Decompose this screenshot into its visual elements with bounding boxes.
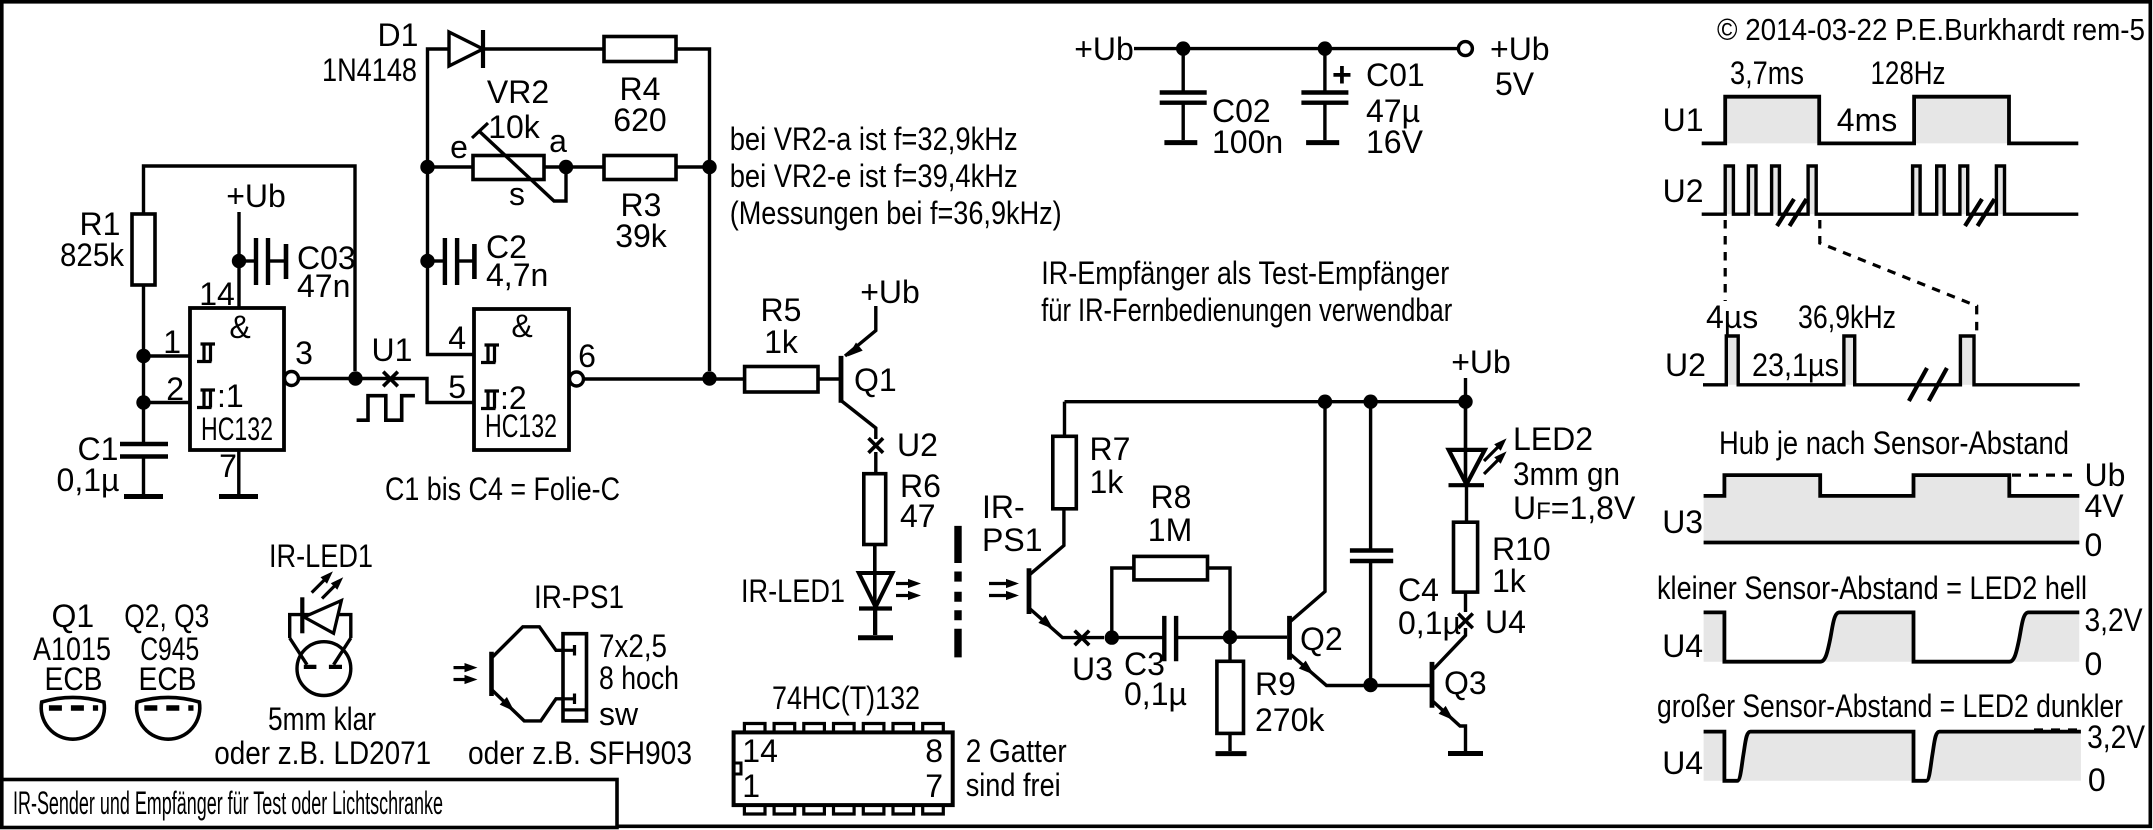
package TO92 Q1 (41, 698, 104, 740)
svg-text:1M: 1M (1148, 512, 1192, 548)
svg-text:D1: D1 (378, 17, 419, 53)
note 8 hoch (599, 660, 679, 696)
note 7x2 5 (599, 628, 667, 664)
timing U3 fill (1704, 475, 2080, 542)
svg-text:47n: 47n (297, 268, 350, 304)
nand gate U1a HC132:1 (190, 308, 284, 450)
note receiver line2 (1041, 292, 1452, 328)
svg-text:U1: U1 (1663, 102, 1704, 138)
led IR-LED1 (741, 545, 921, 636)
svg-text:5: 5 (448, 369, 466, 405)
svg-text:s: s (509, 176, 525, 212)
ground C1 (124, 458, 163, 497)
timing U2us break marks (1909, 368, 1947, 401)
svg-text:36,9kHz: 36,9kHz (1798, 299, 1896, 335)
svg-text:(Messungen bei f=36,9kHz): (Messungen bei f=36,9kHz) (730, 195, 1062, 231)
timing U1 labels (1663, 55, 1946, 138)
transistor Q1 (841, 274, 920, 439)
timing U4a fill (1704, 612, 2080, 661)
svg-text:U1: U1 (372, 332, 413, 368)
diode D1 (322, 17, 483, 88)
node C01 (1318, 41, 1332, 55)
svg-text:3: 3 (295, 335, 313, 371)
power +Ub LED2 (1451, 344, 1511, 402)
svg-text:für IR-Fernbedienungen verwend: für IR-Fernbedienungen verwendbar (1041, 292, 1452, 328)
svg-text:1k: 1k (764, 324, 799, 360)
power +Ub left (1074, 31, 1458, 67)
svg-text:16V: 16V (1366, 124, 1424, 160)
svg-text:IR-: IR- (982, 489, 1025, 525)
node R3 right (702, 160, 716, 174)
svg-text:7: 7 (219, 448, 237, 484)
svg-text:U2: U2 (1663, 173, 1704, 209)
svg-text:23,1µs: 23,1µs (1752, 347, 1839, 383)
svg-text:1N4148: 1N4148 (322, 52, 417, 88)
package IR-PS1 (454, 627, 587, 721)
svg-text:7: 7 (925, 768, 943, 804)
svg-text:10k: 10k (488, 109, 541, 145)
wire R8 left (1112, 568, 1134, 638)
note receiver line1 (1041, 255, 1449, 291)
resistor R9 (1217, 637, 1325, 738)
resistor R5 (745, 292, 818, 392)
wire feedback top (144, 166, 356, 371)
nand gate U1b HC132:2 (474, 308, 569, 450)
node C02 (1176, 41, 1190, 55)
svg-text:sind frei: sind frei (966, 767, 1061, 803)
transistor Q2 (1290, 402, 1431, 686)
svg-text:Q3: Q3 (1444, 665, 1487, 701)
svg-text:U4: U4 (1662, 745, 1703, 781)
svg-text:großer Sensor-Abstand = LED2 d: großer Sensor-Abstand = LED2 dunkler (1657, 688, 2123, 724)
svg-text:Q2: Q2 (1300, 621, 1343, 657)
wire gate1 out (299, 379, 475, 403)
node e (420, 129, 468, 174)
note SFH903 (468, 735, 692, 771)
label s (509, 176, 525, 212)
svg-text:UF=1,8V: UF=1,8V (1513, 490, 1636, 526)
package IR-LED1 (290, 571, 351, 695)
svg-text:7x2,5: 7x2,5 (599, 628, 667, 664)
note LD2071 (214, 735, 431, 771)
svg-text:LED2: LED2 (1513, 421, 1593, 457)
wire top loop (428, 49, 710, 167)
svg-text:2 Gatter: 2 Gatter (966, 733, 1067, 769)
wire R5 to Q1 (818, 377, 839, 380)
node R5 left (702, 371, 716, 385)
led LED2 (1449, 402, 1636, 526)
cross U4 (1458, 614, 1473, 629)
svg-text:a: a (549, 123, 567, 159)
svg-text:4ms: 4ms (1837, 102, 1897, 138)
timing U4b fill (1704, 732, 2081, 781)
note freq line1 (730, 121, 1018, 157)
timing U3 title (1719, 425, 2069, 461)
svg-text:© 2014-03-22 P.E.Burkhardt rem: © 2014-03-22 P.E.Burkhardt rem-5 (1717, 12, 2145, 47)
pin 4 label (448, 320, 466, 356)
light barrier (954, 526, 961, 658)
svg-text:128Hz: 128Hz (1871, 55, 1946, 91)
resistor R1 (60, 206, 155, 285)
resistor R10 (1454, 522, 1551, 599)
svg-text:8 hoch: 8 hoch (599, 660, 679, 696)
copyright note (1717, 12, 2145, 47)
svg-text:Q1: Q1 (51, 598, 94, 634)
node C3 right (1223, 630, 1237, 644)
timing U4a labels (1662, 602, 2143, 682)
label IR-PS1 package (534, 579, 624, 615)
svg-text:1: 1 (742, 768, 760, 804)
resistor R6 (864, 468, 941, 545)
timing U3 zero line (1704, 541, 2080, 545)
label U2 (897, 427, 938, 463)
wire R10 to U4 (1464, 592, 1467, 612)
svg-text:bei VR2-e ist f=39,4kHz: bei VR2-e ist f=39,4kHz (730, 158, 1018, 194)
svg-text:Hub je nach Sensor-Abstand: Hub je nach Sensor-Abstand (1719, 425, 2069, 461)
svg-text:kleiner Sensor-Abstand = LED2: kleiner Sensor-Abstand = LED2 hell (1657, 570, 2087, 606)
note freq line3 (730, 195, 1062, 231)
timing dashed link left (1724, 220, 1727, 301)
svg-text:0,1µ: 0,1µ (57, 462, 120, 498)
svg-text:2: 2 (166, 371, 184, 407)
svg-text::1: :1 (217, 378, 244, 414)
timing U4b dashed top (2034, 728, 2078, 731)
capacitor C02 (1160, 49, 1283, 160)
timing U1 wave (1702, 97, 2079, 144)
svg-text:100n: 100n (1212, 124, 1283, 160)
svg-text:C4: C4 (1398, 572, 1439, 608)
node pin2 (136, 395, 190, 409)
pin 5 label (448, 369, 466, 405)
svg-text:oder z.B. SFH903: oder z.B. SFH903 (468, 735, 692, 771)
power +Ub gate1 (226, 178, 286, 308)
timing U3 labels (1662, 457, 2125, 563)
capacitor C4 (1350, 402, 1461, 684)
svg-text:3,7ms: 3,7ms (1730, 55, 1804, 91)
svg-text:&: & (229, 309, 250, 345)
timing U3 dashed Ub (2012, 474, 2077, 477)
svg-text:47: 47 (900, 498, 936, 534)
timing U4a title (1657, 570, 2087, 606)
svg-text:0,1µ: 0,1µ (1124, 676, 1187, 712)
node U3 (1105, 630, 1119, 644)
label IR-PS1 circuit (982, 489, 1042, 558)
svg-text:620: 620 (613, 102, 666, 138)
pin 1 label (163, 324, 181, 360)
capacitor C1 (57, 431, 168, 498)
svg-text:3mm gn: 3mm gn (1513, 456, 1620, 492)
svg-text:270k: 270k (1255, 702, 1325, 738)
pulse glyph (357, 396, 415, 421)
svg-text:e: e (450, 129, 468, 165)
terminal +Ub 5V (1458, 31, 1549, 102)
ground R9 (1216, 733, 1247, 753)
svg-text:VR2: VR2 (487, 74, 549, 110)
label U1 (372, 332, 413, 368)
resistor R7 (1053, 431, 1131, 509)
svg-text:R5: R5 (761, 292, 802, 328)
cross U2 (869, 438, 884, 453)
wire R3 row (428, 167, 710, 371)
svg-text:HC132: HC132 (485, 408, 557, 444)
light arrows PS1 (989, 579, 1019, 600)
package TO92 Q2 Q3 (137, 698, 200, 740)
timing U4b wave (1704, 732, 2081, 781)
ic package 74HC132 (734, 724, 953, 815)
svg-text:1: 1 (163, 324, 181, 360)
svg-text:6: 6 (578, 338, 596, 374)
svg-text:R8: R8 (1151, 479, 1192, 515)
svg-text:ECB: ECB (139, 661, 197, 697)
pin 3 bubble (285, 335, 313, 386)
svg-text:HC132: HC132 (201, 411, 273, 447)
pin 14 label (199, 276, 235, 312)
svg-text:U3: U3 (1072, 651, 1113, 687)
svg-text:C1 bis C4 = Folie-C: C1 bis C4 = Folie-C (385, 471, 620, 507)
svg-text:R10: R10 (1492, 531, 1551, 567)
svg-text:14: 14 (742, 733, 778, 769)
svg-text:8: 8 (925, 733, 943, 769)
wire R1 to inputs (142, 285, 145, 443)
svg-text:3,2V: 3,2V (2085, 602, 2144, 638)
capacitor C03 (232, 238, 356, 304)
node rail C4 (1363, 395, 1377, 409)
svg-text:U4: U4 (1662, 628, 1703, 664)
svg-text:4: 4 (448, 320, 466, 356)
node pin1 (136, 349, 190, 363)
svg-text:1k: 1k (1492, 563, 1527, 599)
svg-text:+Ub: +Ub (226, 178, 286, 214)
wire gate2 out (584, 377, 745, 380)
svg-text:39k: 39k (615, 218, 668, 254)
timing U1 fill (1725, 97, 2009, 144)
svg-text:5V: 5V (1495, 66, 1535, 102)
resistor R8 (1134, 479, 1208, 580)
wire R7 top (1063, 402, 1066, 437)
svg-text:sw: sw (599, 696, 639, 732)
cross U1 (383, 372, 398, 387)
svg-text:4V: 4V (2085, 488, 2125, 524)
svg-text:oder z.B. LD2071: oder z.B. LD2071 (214, 735, 431, 771)
transistor Q3 (1432, 628, 1487, 751)
svg-text:U2: U2 (897, 427, 938, 463)
svg-text:U3: U3 (1662, 504, 1703, 540)
wire LED2 to R10 (1465, 487, 1468, 522)
svg-text:bei VR2-a ist f=32,9kHz: bei VR2-a ist f=32,9kHz (730, 121, 1018, 157)
svg-text:0,1µ: 0,1µ (1398, 605, 1461, 641)
timing U2ms label (1663, 173, 1704, 209)
wire C2 drop (428, 167, 475, 355)
rail +Ub receiver (1065, 400, 1466, 403)
label 74HC(T)132 (772, 680, 920, 716)
note freq line2 (730, 158, 1018, 194)
svg-text:+Ub: +Ub (860, 274, 920, 310)
svg-text:4µs: 4µs (1706, 299, 1758, 335)
svg-text:R7: R7 (1090, 431, 1131, 467)
svg-text:0: 0 (2085, 527, 2103, 563)
svg-text:R9: R9 (1255, 666, 1296, 702)
svg-text:IR-Empfänger als Test-Empfänge: IR-Empfänger als Test-Empfänger (1041, 255, 1449, 291)
label U3 (1072, 651, 1113, 687)
svg-text:Q1: Q1 (854, 362, 897, 398)
capacitor C2 (420, 229, 548, 293)
timing U2ms break marks (1777, 199, 1995, 226)
cross U3 (1075, 631, 1090, 646)
node U1 (348, 371, 362, 385)
note 2 gatter (966, 733, 1067, 803)
pin 7 label (219, 448, 258, 497)
svg-text:1k: 1k (1090, 464, 1125, 500)
svg-text:C01: C01 (1366, 57, 1425, 93)
note sw (599, 696, 639, 732)
ground Q3 (1448, 751, 1483, 756)
ground IR-LED1 (858, 610, 893, 638)
wire R6 to LED (873, 545, 876, 574)
phototransistor IR-PS1 (1029, 509, 1104, 638)
svg-text:+Ub: +Ub (1451, 344, 1511, 380)
label U4 (1485, 604, 1526, 640)
resistor R3 (604, 156, 676, 255)
capacitor C01 (1301, 49, 1424, 160)
node a (549, 123, 573, 174)
svg-text:0: 0 (2088, 762, 2106, 798)
svg-text:3,2V: 3,2V (2087, 719, 2146, 755)
timing U2us wave (1703, 336, 2080, 385)
wire C3 to Q2 (1230, 636, 1287, 639)
timing U4a wave (1704, 612, 2080, 661)
svg-text:5mm klar: 5mm klar (268, 701, 376, 737)
svg-text:U4: U4 (1485, 604, 1526, 640)
timing U4b title (1657, 688, 2123, 724)
svg-text:IR-Sender und Empfänger für Te: IR-Sender und Empfänger für Test oder Li… (13, 785, 443, 821)
svg-text:Q2, Q3: Q2, Q3 (124, 598, 209, 634)
timing U4b labels (1662, 719, 2145, 798)
svg-text:ECB: ECB (45, 661, 103, 697)
pin 2 label (166, 371, 184, 407)
svg-text:+Ub: +Ub (1074, 31, 1134, 67)
wire R8 right (1208, 568, 1231, 637)
node C4 bottom (1363, 678, 1377, 692)
svg-text:IR-LED1: IR-LED1 (269, 538, 373, 574)
svg-text:&: & (511, 308, 532, 344)
note folie (385, 471, 620, 507)
label Q1 package (33, 598, 111, 697)
timing dashed link right (1820, 220, 1977, 336)
svg-text:U2: U2 (1665, 347, 1706, 383)
svg-text:825k: 825k (60, 237, 125, 273)
svg-text:+Ub: +Ub (1490, 31, 1550, 67)
label IR-LED1 package (269, 538, 373, 574)
timing U2us labels (1665, 299, 1896, 383)
note 5mm klar (268, 701, 376, 737)
resistor R4 (604, 37, 676, 139)
timing U2ms wave (1702, 166, 2079, 214)
svg-text:IR-LED1: IR-LED1 (741, 573, 845, 609)
svg-text:74HC(T)132: 74HC(T)132 (772, 680, 920, 716)
node rail LED2 (1458, 395, 1472, 409)
svg-text:4,7n: 4,7n (486, 257, 548, 293)
capacitor C3 (1112, 616, 1230, 712)
wire U2 to R6 (874, 452, 877, 474)
svg-text:PS1: PS1 (982, 522, 1042, 558)
svg-text:+: + (1332, 56, 1352, 94)
label Q2 Q3 package (124, 598, 209, 697)
title box (2, 780, 617, 828)
pin 6 bubble (570, 338, 596, 386)
svg-text:0: 0 (2085, 646, 2103, 682)
timing U3 wave (1704, 475, 2080, 496)
potentiometer VR2 (472, 74, 566, 201)
svg-text:IR-PS1: IR-PS1 (534, 579, 624, 615)
node rail Q2 (1318, 395, 1332, 409)
